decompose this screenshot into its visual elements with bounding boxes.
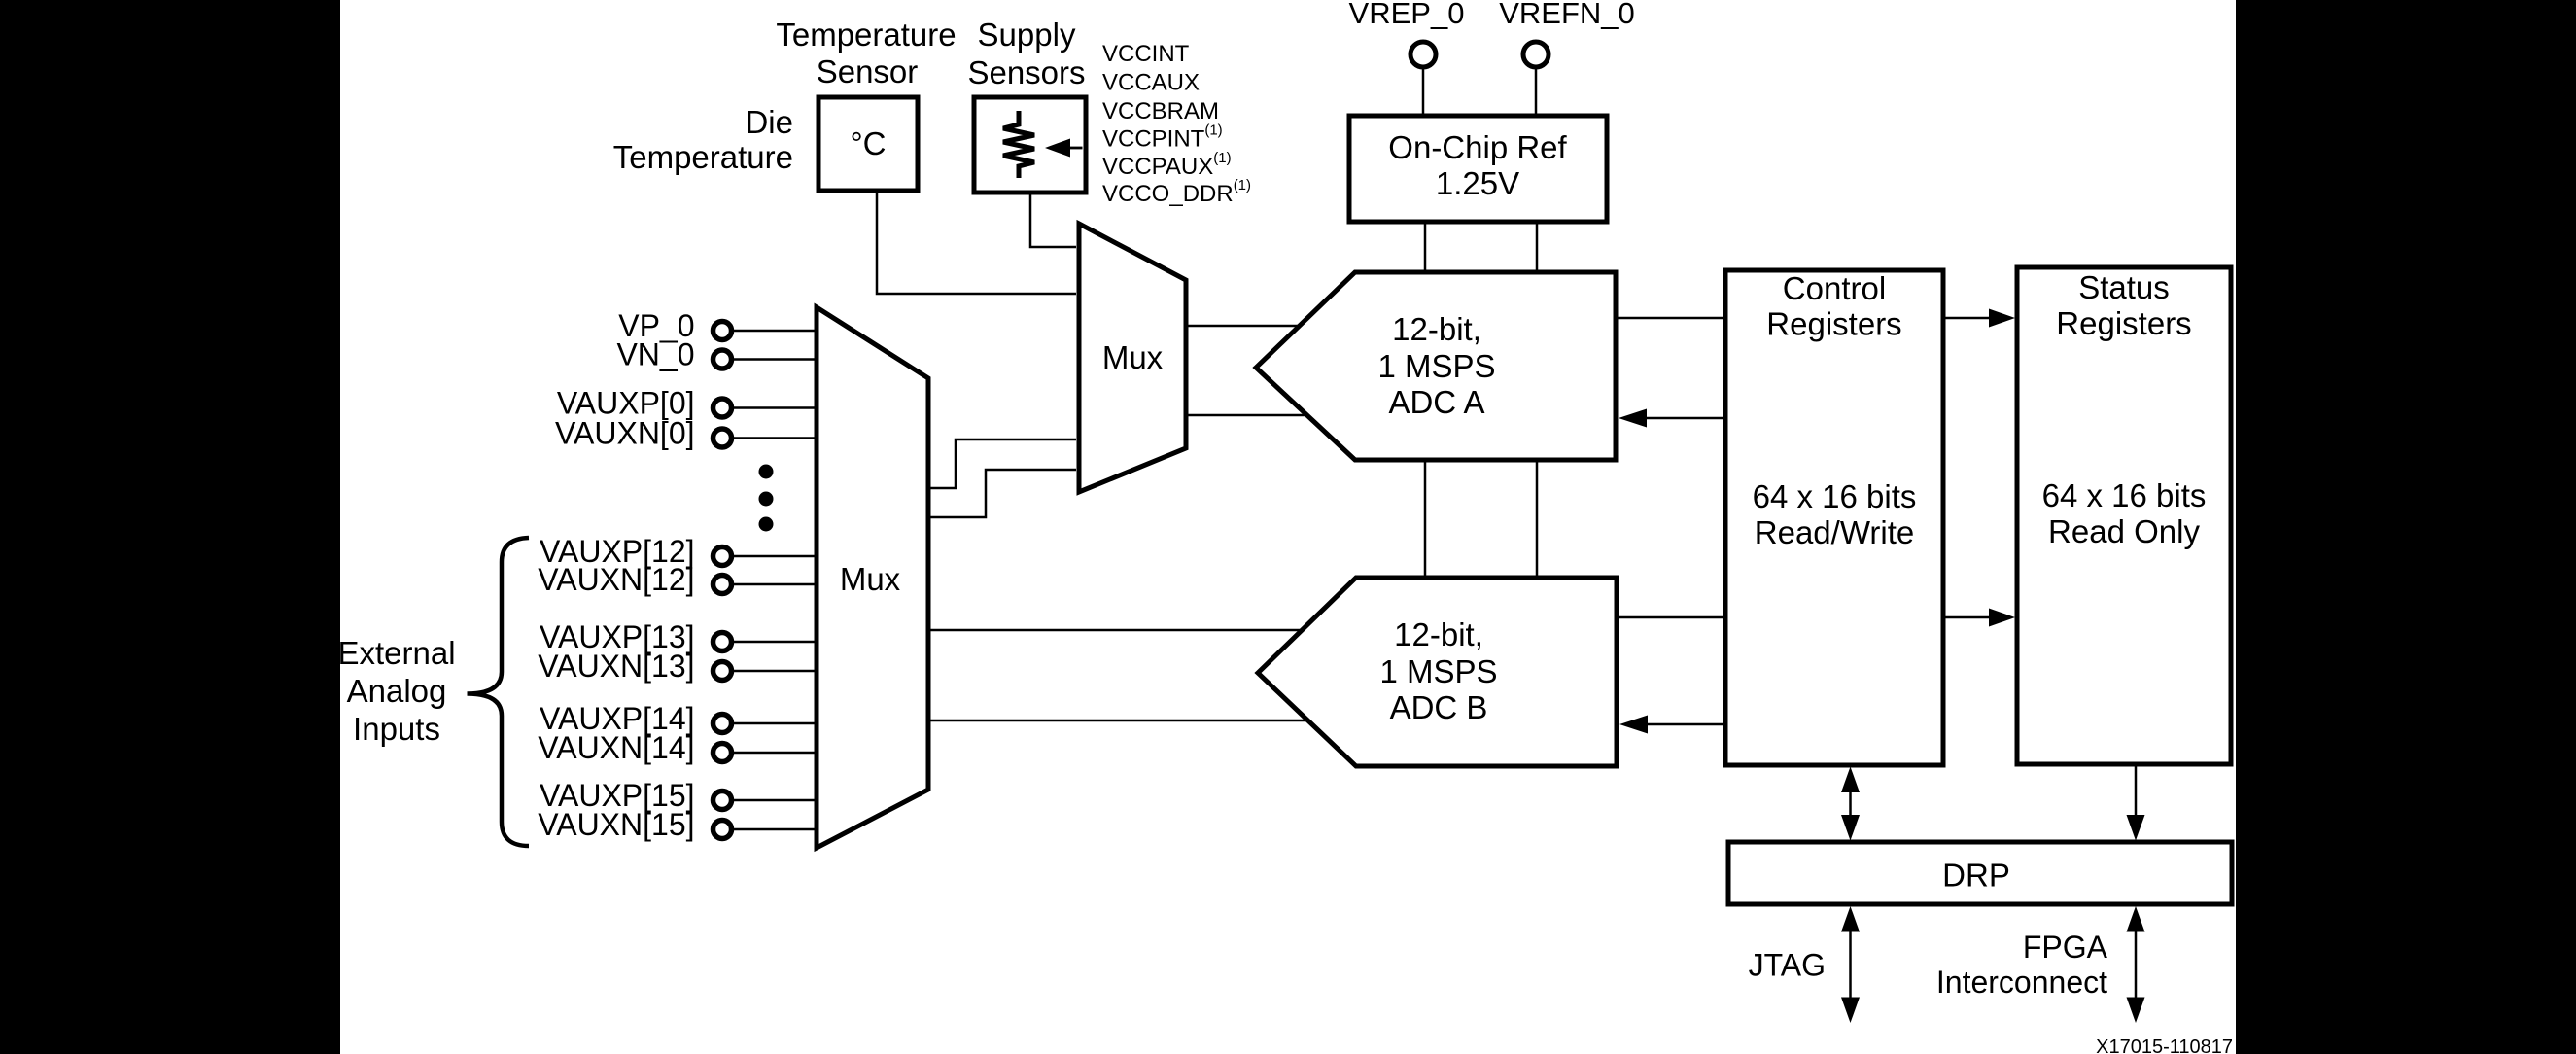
svg-text:Temperature: Temperature [776,17,956,53]
svg-text:VCCAUX: VCCAUX [1102,70,1200,96]
svg-text:FPGA: FPGA [2023,930,2108,965]
svg-text:VAUXN[0]: VAUXN[0] [555,416,694,451]
svg-text:Interconnect: Interconnect [1936,965,2107,1000]
input terminal VAUXN[13] [538,649,731,684]
wire VAUXN[14] to input mux [732,752,818,755]
wire VAUXP[12] to input mux [732,555,818,558]
input terminal VAUXP[0] [557,386,732,421]
svg-text:Read/Write: Read/Write [1755,514,1914,550]
svg-text:Temperature: Temperature [613,139,793,175]
wire VREFN_0 to On-Chip Ref [1535,67,1538,117]
svg-text:VCCBRAM: VCCBRAM [1102,98,1219,124]
label Status Registers 64 x 16 bits Read Only [2042,269,2207,549]
svg-text:VAUXN[15]: VAUXN[15] [538,807,694,842]
svg-text:Analog: Analog [347,673,447,709]
On-Chip Ref 1.25V block [1349,116,1607,222]
wire VAUXP[0] to input mux [732,406,818,409]
svg-text:64 x 16 bits: 64 x 16 bits [1753,478,1917,514]
svg-text:Mux: Mux [840,561,901,597]
svg-text:Inputs: Inputs [353,711,440,747]
svg-text:12-bit,: 12-bit, [1392,311,1481,347]
svg-text:Supply: Supply [978,17,1076,53]
wire On-Chip Ref to ADC A left [1424,222,1427,272]
label Die Temperature [613,104,793,175]
label External Analog Inputs [337,635,455,747]
wire ADC A to ADC B right [1536,460,1539,578]
wire VAUXN[15] to input mux [732,828,818,831]
double arrow JTAG to DRP [1841,906,1860,1023]
svg-text:VCCPAUX(1): VCCPAUX(1) [1102,150,1232,180]
resistor symbol inside supply sensors block [1003,111,1034,178]
svg-text:ADC B: ADC B [1390,689,1488,725]
double arrow FPGA Interconnect to DRP [2127,906,2145,1023]
svg-text:Registers: Registers [2056,305,2191,341]
wire VP_0 to input mux [732,330,818,333]
svg-text:VCCINT: VCCINT [1102,41,1190,67]
DRP block [1728,842,2232,904]
svg-text:64 x 16 bits: 64 x 16 bits [2042,477,2207,513]
svg-text:Control: Control [1783,270,1886,306]
wire sensor mux to ADC A upper [1186,325,1299,328]
wire supply sensors to sensor mux [1030,193,1076,247]
wire input mux to sensor mux lower [928,470,1076,517]
wire VAUXN[0] to input mux [732,437,818,439]
wire On-Chip Ref to ADC A right [1536,222,1539,272]
double arrow Control Registers to DRP [1841,767,1860,841]
svg-text:VCCPINT(1): VCCPINT(1) [1102,123,1223,153]
label Control Registers 64 x 16 bits Read/Write [1753,270,1917,550]
wire VN_0 to input mux [732,358,818,361]
arrow Control Registers to ADC A [1619,409,1725,428]
sensor mux trapezoid [1079,224,1186,492]
label 12-bit 1 MSPS ADC B [1379,616,1497,725]
svg-text:Status: Status [2078,269,2170,305]
Control Registers block [1725,270,1943,765]
wire VAUXN[13] to input mux [732,670,818,673]
ellipsis dots for omitted channels [759,465,774,532]
input mux trapezoid [817,307,928,848]
VREP_0 terminal circle [1410,42,1436,67]
svg-text:VREFN_0: VREFN_0 [1499,0,1635,30]
wire temperature sensor to sensor mux [877,191,1076,294]
svg-text:VREP_0: VREP_0 [1349,0,1465,30]
svg-text:VAUXN[14]: VAUXN[14] [538,730,694,765]
wire VAUXN[12] to input mux [732,583,818,586]
input terminal VN_0 [616,337,731,372]
diagram white background [340,0,2236,1054]
svg-text:VAUXN[13]: VAUXN[13] [538,649,694,684]
temperature sensor block (degC box) [818,97,918,191]
svg-text:JTAG: JTAG [1749,948,1826,983]
input terminal VAUXP[12] [540,534,731,569]
input terminal VAUXP[14] [540,701,731,736]
svg-text:VAUXN[12]: VAUXN[12] [538,562,694,597]
wire input mux to ADC B upper [928,629,1303,632]
arrow Status Registers to DRP [2127,764,2145,841]
svg-text:12-bit,: 12-bit, [1394,616,1483,652]
svg-text:1.25V: 1.25V [1436,165,1519,201]
wire VAUXP[13] to input mux [732,641,818,644]
wire ADC A to ADC B left [1424,460,1427,578]
input terminal VAUXN[15] [538,807,731,842]
label Supply Sensors [967,17,1085,90]
input terminal VAUXN[14] [538,730,731,765]
svg-text:DRP: DRP [1942,858,2010,894]
supply sensors block [974,97,1086,193]
svg-text:Registers: Registers [1766,306,1901,342]
wire VAUXP[15] to input mux [732,799,818,802]
wire ADC A output to Control Registers [1616,317,1725,320]
wire ADC B output to Control Registers [1617,616,1725,619]
input terminal VAUXP[13] [540,619,731,654]
wire VAUXP[14] to input mux [732,722,818,725]
arrow Control to Status lower [1943,609,2015,627]
svg-text:1 MSPS: 1 MSPS [1377,348,1495,384]
svg-text:ADC A: ADC A [1388,384,1484,420]
label Temperature Sensor [776,17,956,89]
VREFN_0 terminal circle [1523,42,1549,67]
svg-text:X17015-110817: X17015-110817 [2096,1036,2233,1054]
ADC A pentagon block [1256,272,1616,460]
svg-text:Mux: Mux [1102,339,1164,375]
svg-text:Die: Die [745,104,793,140]
input terminal VP_0 [618,308,731,343]
label 12-bit 1 MSPS ADC A [1377,311,1495,420]
wire sensor mux to ADC A lower [1186,414,1307,417]
wire input mux to sensor mux upper [928,439,1076,488]
input terminal VAUXN[12] [538,562,731,597]
arrow Control Registers to ADC B [1619,716,1725,734]
svg-text:Sensor: Sensor [817,53,919,89]
svg-text:Read Only: Read Only [2048,513,2200,549]
ADC B pentagon block [1258,578,1617,766]
input terminal VAUXP[15] [540,778,731,813]
brace for external analog inputs [468,538,530,846]
input terminal VAUXN[0] [555,416,731,451]
supply net labels VCCINT VCCAUX VCCBRAM VCCPINT VCCPAUX VCCO_DDR [1102,41,1251,207]
label On-Chip Ref 1.25V [1388,129,1567,201]
wiper arrow pointing at resistor [1045,139,1083,158]
wire VREP_0 to On-Chip Ref [1422,67,1425,117]
svg-text:VCCO_DDR(1): VCCO_DDR(1) [1102,177,1251,207]
label FPGA Interconnect [1936,930,2108,1000]
svg-text:1 MSPS: 1 MSPS [1379,653,1497,689]
arrow Control to Status upper [1943,309,2015,328]
svg-text:On-Chip Ref: On-Chip Ref [1388,129,1567,165]
Status Registers block [2017,267,2231,764]
wire input mux to ADC B lower [928,720,1307,722]
svg-text:°C: °C [850,125,886,161]
svg-text:VN_0: VN_0 [616,337,694,372]
svg-text:External: External [337,635,455,671]
svg-text:Sensors: Sensors [967,54,1085,90]
